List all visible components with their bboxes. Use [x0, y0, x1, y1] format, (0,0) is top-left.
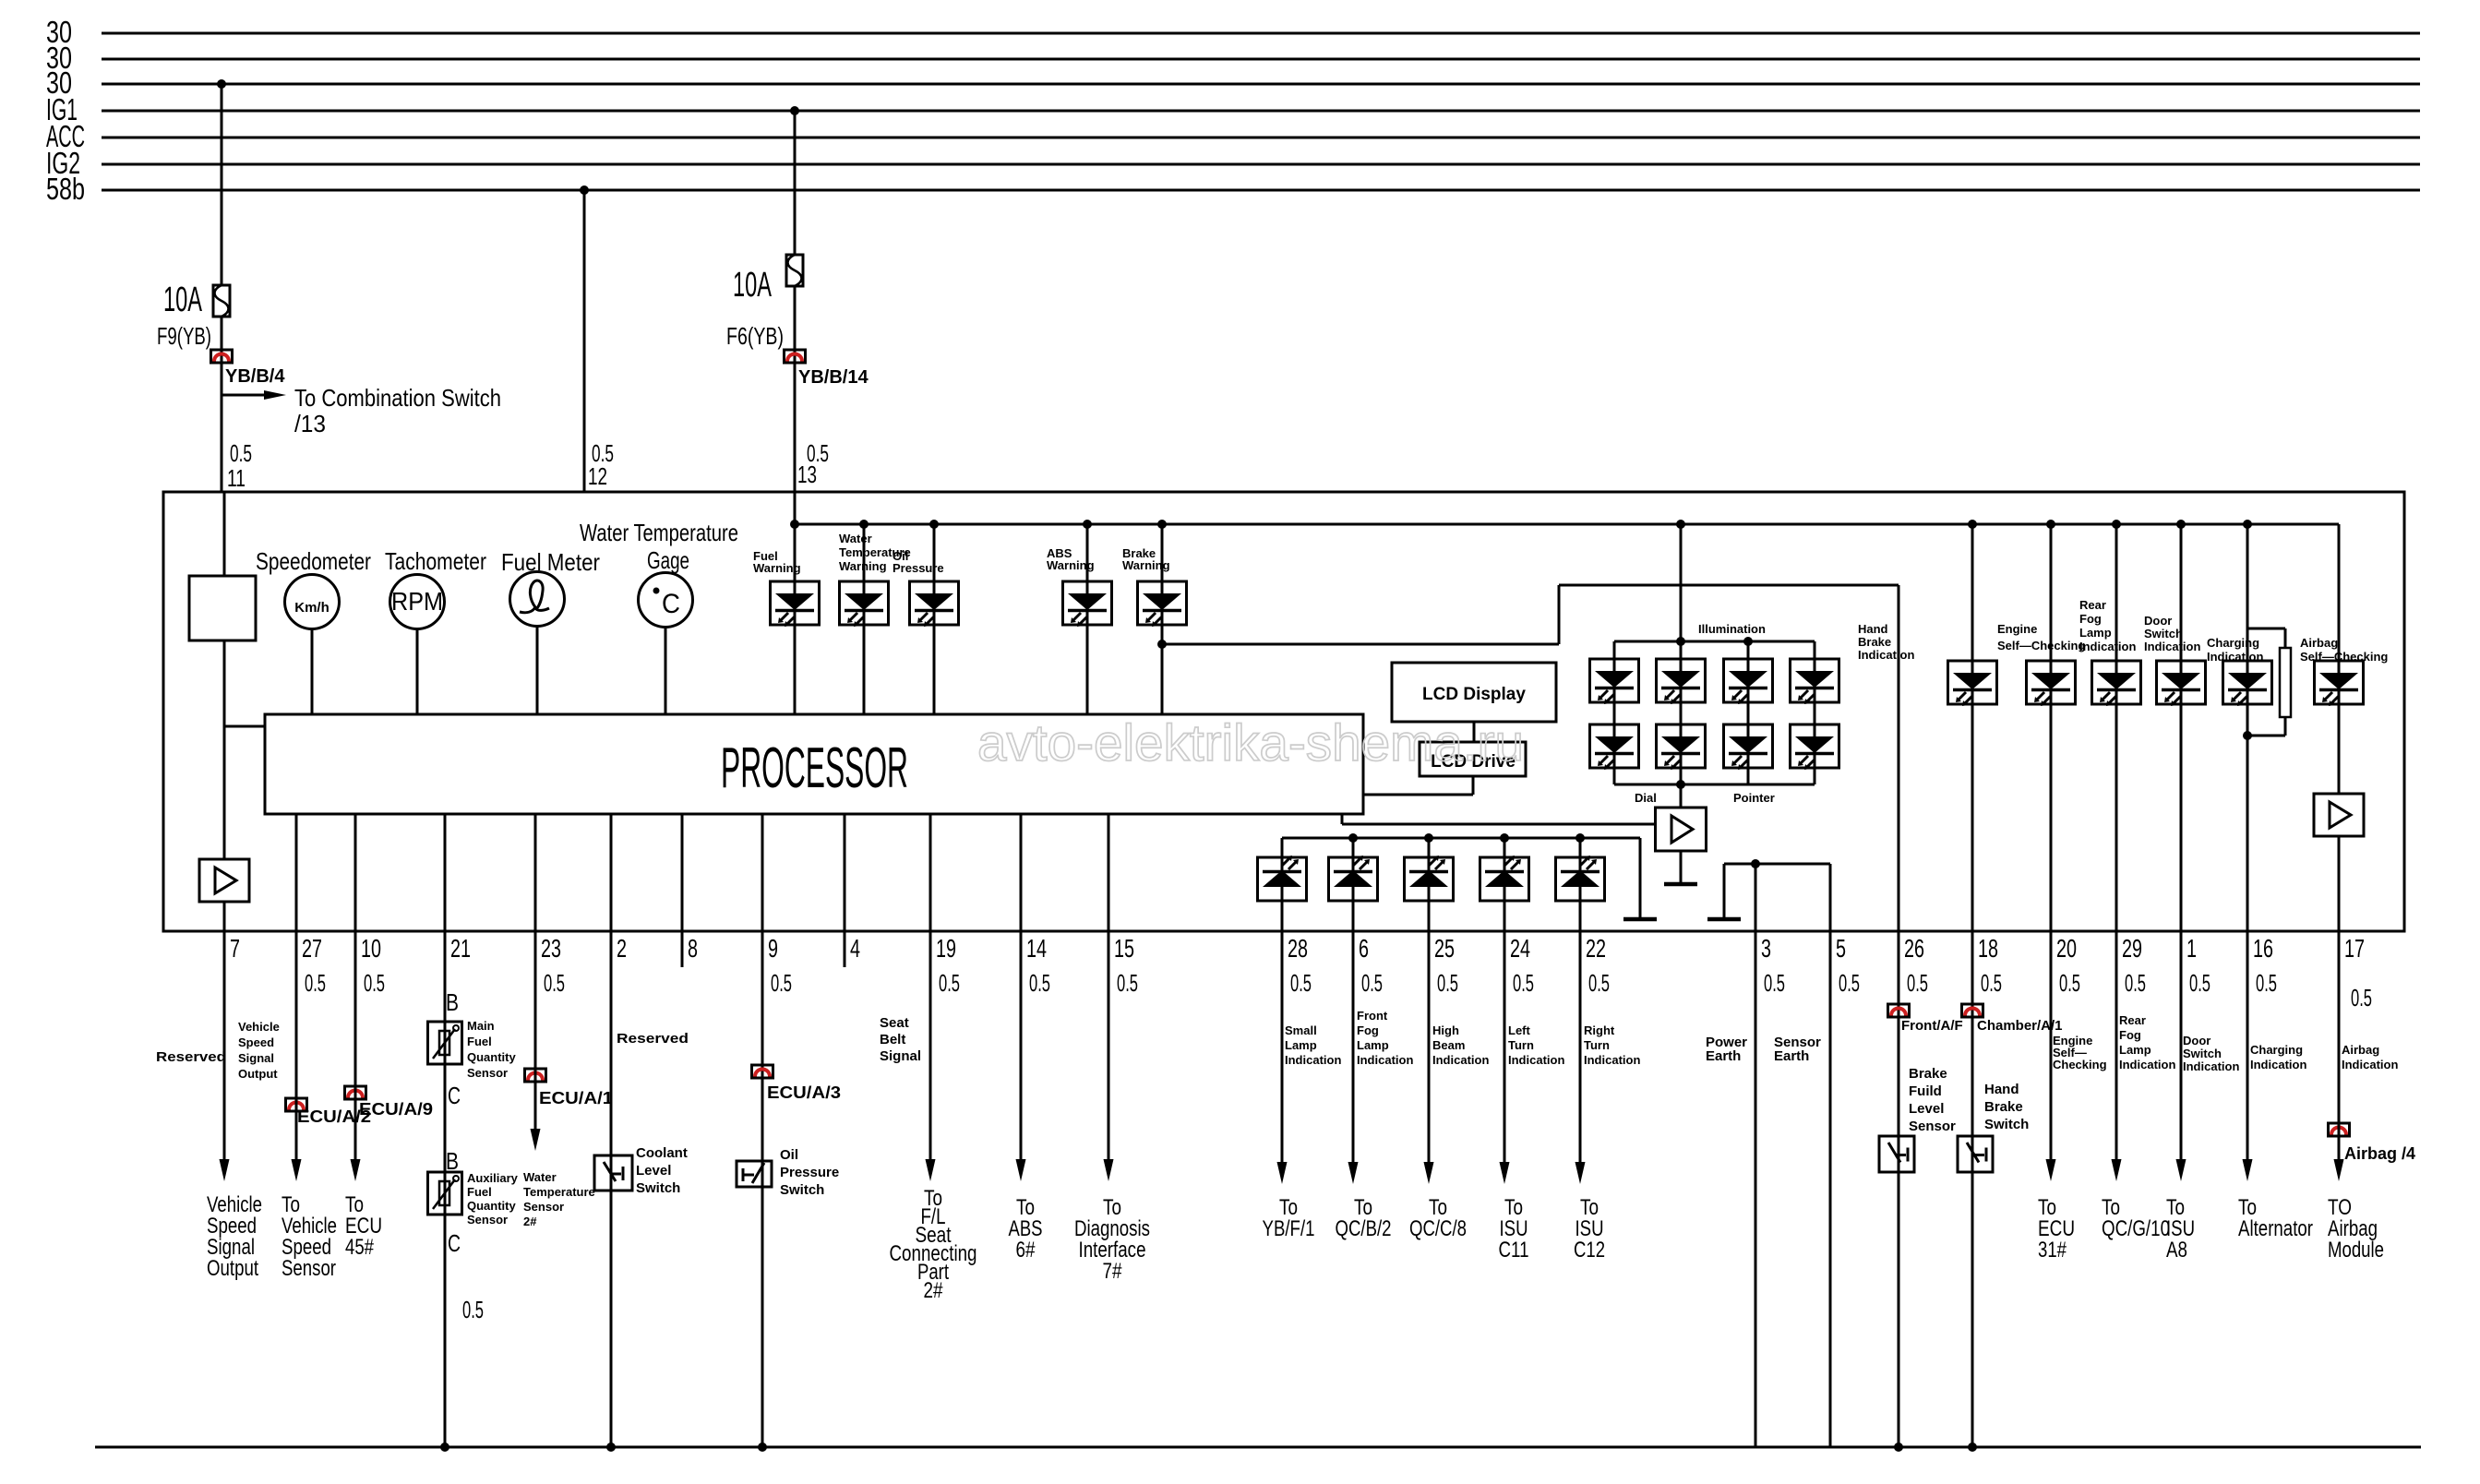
- svg-text:Brake: Brake: [1858, 635, 1891, 649]
- svg-text:Engine: Engine: [1997, 622, 2037, 636]
- svg-text:Pressure: Pressure: [780, 1165, 839, 1180]
- svg-text:Turn: Turn: [1584, 1038, 1610, 1052]
- svg-text:Fuel: Fuel: [467, 1185, 492, 1199]
- svg-text:Indication: Indication: [2079, 640, 2136, 653]
- svg-text:0.5: 0.5: [1588, 969, 1610, 997]
- svg-text:B: B: [446, 988, 459, 1016]
- svg-text:Illumination: Illumination: [1698, 622, 1766, 636]
- svg-text:0.5: 0.5: [2256, 969, 2277, 997]
- svg-text:10: 10: [361, 934, 381, 963]
- svg-text:Brake: Brake: [1984, 1099, 2023, 1115]
- svg-text:0.5: 0.5: [771, 969, 792, 997]
- svg-text:YB/F/1: YB/F/1: [1263, 1216, 1315, 1241]
- svg-text:5: 5: [1836, 934, 1846, 963]
- svg-text:Dial: Dial: [1635, 791, 1657, 805]
- svg-text:Checking: Checking: [2053, 1058, 2107, 1071]
- svg-text:10A: 10A: [163, 281, 202, 319]
- svg-text:Indication: Indication: [2119, 1058, 2175, 1071]
- svg-text:12: 12: [588, 462, 607, 490]
- svg-text:0.5: 0.5: [1437, 969, 1458, 997]
- svg-text:0.5: 0.5: [462, 1296, 484, 1323]
- svg-text:YB/B/14: YB/B/14: [798, 367, 869, 388]
- svg-text:0.5: 0.5: [2189, 969, 2210, 997]
- svg-text:Reserved: Reserved: [156, 1049, 226, 1065]
- svg-text:31#: 31#: [2038, 1238, 2067, 1263]
- svg-text:C: C: [448, 1229, 461, 1257]
- svg-text:0.5: 0.5: [1907, 969, 1928, 997]
- svg-text:Module: Module: [2328, 1238, 2384, 1263]
- svg-text:Right: Right: [1584, 1023, 1615, 1037]
- svg-text:Switch: Switch: [1984, 1117, 2029, 1132]
- svg-text:C: C: [448, 1082, 461, 1109]
- svg-text:Charging: Charging: [2250, 1043, 2303, 1057]
- svg-text:Indication: Indication: [1432, 1053, 1489, 1067]
- svg-text:PROCESSOR: PROCESSOR: [721, 736, 908, 800]
- svg-text:0.5: 0.5: [1839, 969, 1860, 997]
- svg-text:0.5: 0.5: [364, 969, 385, 997]
- svg-text:Signal: Signal: [880, 1048, 921, 1064]
- svg-text:Switch: Switch: [2144, 627, 2183, 640]
- svg-text:18: 18: [1978, 934, 1998, 963]
- svg-text:Rear: Rear: [2119, 1013, 2146, 1027]
- svg-text:Fuild: Fuild: [1909, 1083, 1942, 1099]
- svg-text:Coolant: Coolant: [636, 1145, 688, 1161]
- svg-text:9: 9: [768, 934, 778, 963]
- svg-text:Seat: Seat: [880, 1015, 909, 1031]
- svg-text:Gage: Gage: [647, 546, 689, 574]
- svg-text:Lamp: Lamp: [1357, 1038, 1389, 1052]
- svg-text:Indication: Indication: [2207, 650, 2263, 664]
- svg-text:Sensor: Sensor: [467, 1213, 508, 1227]
- svg-text:Lamp: Lamp: [1285, 1038, 1317, 1052]
- svg-text:Indication: Indication: [1508, 1053, 1564, 1067]
- svg-text:Belt: Belt: [880, 1032, 905, 1047]
- svg-text:Pointer: Pointer: [1733, 791, 1775, 805]
- svg-text:C11: C11: [1499, 1238, 1529, 1263]
- svg-text:Sensor: Sensor: [467, 1066, 508, 1080]
- svg-text:Indication: Indication: [2342, 1058, 2398, 1071]
- svg-text:Quantity: Quantity: [467, 1199, 516, 1213]
- svg-text:0.5: 0.5: [1513, 969, 1534, 997]
- svg-text:A8: A8: [2166, 1238, 2187, 1263]
- svg-text:Indication: Indication: [1285, 1053, 1341, 1067]
- svg-text:10A: 10A: [733, 266, 772, 305]
- svg-text:Beam: Beam: [1432, 1038, 1465, 1052]
- svg-text:0.5: 0.5: [230, 439, 252, 467]
- svg-text:Output: Output: [207, 1256, 258, 1281]
- svg-text:2#: 2#: [924, 1278, 944, 1303]
- svg-text:Reserved: Reserved: [617, 1031, 689, 1047]
- svg-text:RPM: RPM: [391, 587, 443, 616]
- svg-text:LCD Display: LCD Display: [1422, 685, 1526, 704]
- svg-text:Earth: Earth: [1774, 1048, 1809, 1064]
- svg-text:F6(YB): F6(YB): [726, 322, 784, 350]
- svg-text:3: 3: [1761, 934, 1771, 963]
- svg-text:Fuel: Fuel: [467, 1035, 492, 1048]
- svg-text:/13: /13: [294, 410, 326, 437]
- svg-text:Signal: Signal: [238, 1051, 274, 1065]
- svg-text:6#: 6#: [1016, 1238, 1036, 1263]
- svg-text:Fog: Fog: [2079, 612, 2102, 626]
- svg-text:7: 7: [230, 934, 240, 963]
- svg-text:YB/B/4: YB/B/4: [225, 366, 285, 387]
- svg-text:Speedometer: Speedometer: [256, 547, 371, 575]
- svg-text:16: 16: [2253, 934, 2273, 963]
- svg-text:Rear: Rear: [2079, 598, 2106, 612]
- svg-text:2#: 2#: [523, 1215, 537, 1228]
- svg-text:ECU/A/1: ECU/A/1: [539, 1089, 613, 1107]
- svg-text:Switch: Switch: [780, 1182, 824, 1198]
- svg-text:Small: Small: [1285, 1023, 1317, 1037]
- svg-text:14: 14: [1026, 934, 1047, 963]
- svg-text:Warning: Warning: [1047, 558, 1095, 572]
- svg-text:Airbag /4: Airbag /4: [2344, 1144, 2415, 1163]
- svg-text:Self—Checking: Self—Checking: [1997, 639, 2085, 652]
- svg-text:Switch: Switch: [636, 1180, 680, 1196]
- svg-text:45#: 45#: [345, 1235, 375, 1260]
- svg-text:Front/A/F: Front/A/F: [1901, 1018, 1963, 1034]
- svg-text:ECU/A/3: ECU/A/3: [767, 1083, 841, 1102]
- svg-text:Self—Checking: Self—Checking: [2300, 650, 2388, 664]
- svg-text:0.5: 0.5: [1361, 969, 1383, 997]
- svg-text:Hand: Hand: [1984, 1082, 2019, 1097]
- svg-text:Chamber/A/1: Chamber/A/1: [1977, 1018, 2063, 1034]
- svg-text:Water: Water: [839, 532, 872, 545]
- svg-text:0.5: 0.5: [2351, 984, 2372, 1011]
- svg-text:20: 20: [2056, 934, 2077, 963]
- svg-text:C12: C12: [1574, 1238, 1605, 1263]
- svg-text:Front: Front: [1357, 1009, 1388, 1023]
- svg-text:1: 1: [2186, 934, 2197, 963]
- svg-text:Sensor: Sensor: [1909, 1119, 1956, 1134]
- svg-text:22: 22: [1586, 934, 1606, 963]
- svg-text:Sensor: Sensor: [523, 1200, 564, 1214]
- svg-text:25: 25: [1434, 934, 1455, 963]
- svg-text:Water: Water: [523, 1170, 557, 1184]
- svg-text:Indication: Indication: [1858, 648, 1914, 662]
- svg-text:8: 8: [688, 934, 698, 963]
- svg-text:C: C: [662, 589, 680, 619]
- svg-text:ECU/A/9: ECU/A/9: [359, 1100, 433, 1119]
- svg-text:Left: Left: [1508, 1023, 1531, 1037]
- svg-text:4: 4: [850, 934, 860, 963]
- svg-text:Fuel Meter: Fuel Meter: [501, 548, 600, 576]
- svg-text:Lamp: Lamp: [2119, 1043, 2151, 1057]
- svg-text:Earth: Earth: [1706, 1048, 1741, 1064]
- svg-text:15: 15: [1114, 934, 1134, 963]
- svg-text:Water Temperature: Water Temperature: [580, 519, 738, 546]
- svg-text:0.5: 0.5: [1981, 969, 2002, 997]
- svg-text:Quantity: Quantity: [467, 1050, 516, 1064]
- svg-text:High: High: [1432, 1023, 1459, 1037]
- svg-text:0.5: 0.5: [1290, 969, 1312, 997]
- svg-text:6: 6: [1359, 934, 1369, 963]
- svg-text:0.5: 0.5: [1764, 969, 1785, 997]
- svg-text:24: 24: [1510, 934, 1530, 963]
- svg-text:Hand: Hand: [1858, 622, 1888, 636]
- svg-text:Auxiliary: Auxiliary: [467, 1171, 519, 1185]
- svg-text:Alternator: Alternator: [2238, 1216, 2313, 1241]
- svg-text:Fog: Fog: [2119, 1028, 2141, 1042]
- svg-text:Temperature: Temperature: [523, 1185, 595, 1199]
- svg-text:Level: Level: [1909, 1101, 1944, 1117]
- svg-text:Indication: Indication: [1357, 1053, 1413, 1067]
- svg-text:Door: Door: [2144, 614, 2172, 628]
- svg-text:Airbag: Airbag: [2342, 1043, 2379, 1057]
- svg-text:Warning: Warning: [839, 559, 887, 573]
- svg-text:Main: Main: [467, 1019, 495, 1033]
- svg-text:17: 17: [2344, 934, 2365, 963]
- svg-text:58b: 58b: [46, 172, 85, 206]
- svg-text:Sensor: Sensor: [282, 1256, 336, 1281]
- svg-text:23: 23: [541, 934, 561, 963]
- svg-text:0.5: 0.5: [1117, 969, 1138, 997]
- svg-text:Speed: Speed: [238, 1035, 274, 1049]
- svg-text:Indication: Indication: [1584, 1053, 1640, 1067]
- svg-text:26: 26: [1904, 934, 1924, 963]
- svg-text:0.5: 0.5: [2059, 969, 2080, 997]
- svg-text:Vehicle: Vehicle: [238, 1020, 280, 1034]
- svg-text:Indication: Indication: [2250, 1058, 2306, 1071]
- svg-text:QC/C/8: QC/C/8: [1409, 1216, 1467, 1241]
- svg-text:Fog: Fog: [1357, 1023, 1379, 1037]
- svg-text:21: 21: [450, 934, 471, 963]
- svg-text:Charging: Charging: [2207, 636, 2259, 650]
- svg-text:Door: Door: [2183, 1034, 2210, 1047]
- svg-text:Warning: Warning: [1122, 558, 1170, 572]
- svg-text:2: 2: [617, 934, 627, 963]
- svg-text:Tachometer: Tachometer: [385, 547, 486, 575]
- svg-text:Brake: Brake: [1909, 1066, 1947, 1082]
- svg-text:11: 11: [227, 464, 246, 492]
- svg-text:Lamp: Lamp: [2079, 626, 2112, 640]
- svg-text:0.5: 0.5: [2125, 969, 2146, 997]
- svg-text:0.5: 0.5: [544, 969, 565, 997]
- svg-text:19: 19: [936, 934, 956, 963]
- svg-text:29: 29: [2122, 934, 2142, 963]
- svg-text:F9(YB): F9(YB): [157, 322, 211, 350]
- svg-text:Indication: Indication: [2144, 640, 2200, 653]
- svg-text:0.5: 0.5: [939, 969, 960, 997]
- svg-text:Turn: Turn: [1508, 1038, 1534, 1052]
- svg-text:Switch: Switch: [2183, 1047, 2222, 1060]
- svg-text:27: 27: [302, 934, 322, 963]
- svg-text:B: B: [446, 1147, 459, 1175]
- svg-text:7#: 7#: [1103, 1259, 1123, 1284]
- svg-text:Output: Output: [238, 1067, 278, 1081]
- svg-text:To Combination Switch: To Combination Switch: [294, 384, 501, 412]
- svg-text:Indication: Indication: [2183, 1059, 2239, 1073]
- svg-text:0.5: 0.5: [1029, 969, 1050, 997]
- svg-text:Level: Level: [636, 1163, 671, 1179]
- svg-text:QC/G/10: QC/G/10: [2102, 1216, 2170, 1241]
- svg-text:Warning: Warning: [753, 561, 801, 575]
- svg-text:Pressure: Pressure: [893, 561, 944, 575]
- svg-text:Airbag: Airbag: [2300, 636, 2338, 650]
- svg-text:QC/B/2: QC/B/2: [1336, 1216, 1392, 1241]
- svg-text:Km/h: Km/h: [294, 600, 329, 616]
- svg-text:Oil: Oil: [780, 1147, 798, 1163]
- svg-text:28: 28: [1288, 934, 1308, 963]
- svg-text:0.5: 0.5: [305, 969, 326, 997]
- svg-text:13: 13: [797, 461, 817, 488]
- svg-text:avto-elektrika-shema.ru: avto-elektrika-shema.ru: [977, 713, 1524, 772]
